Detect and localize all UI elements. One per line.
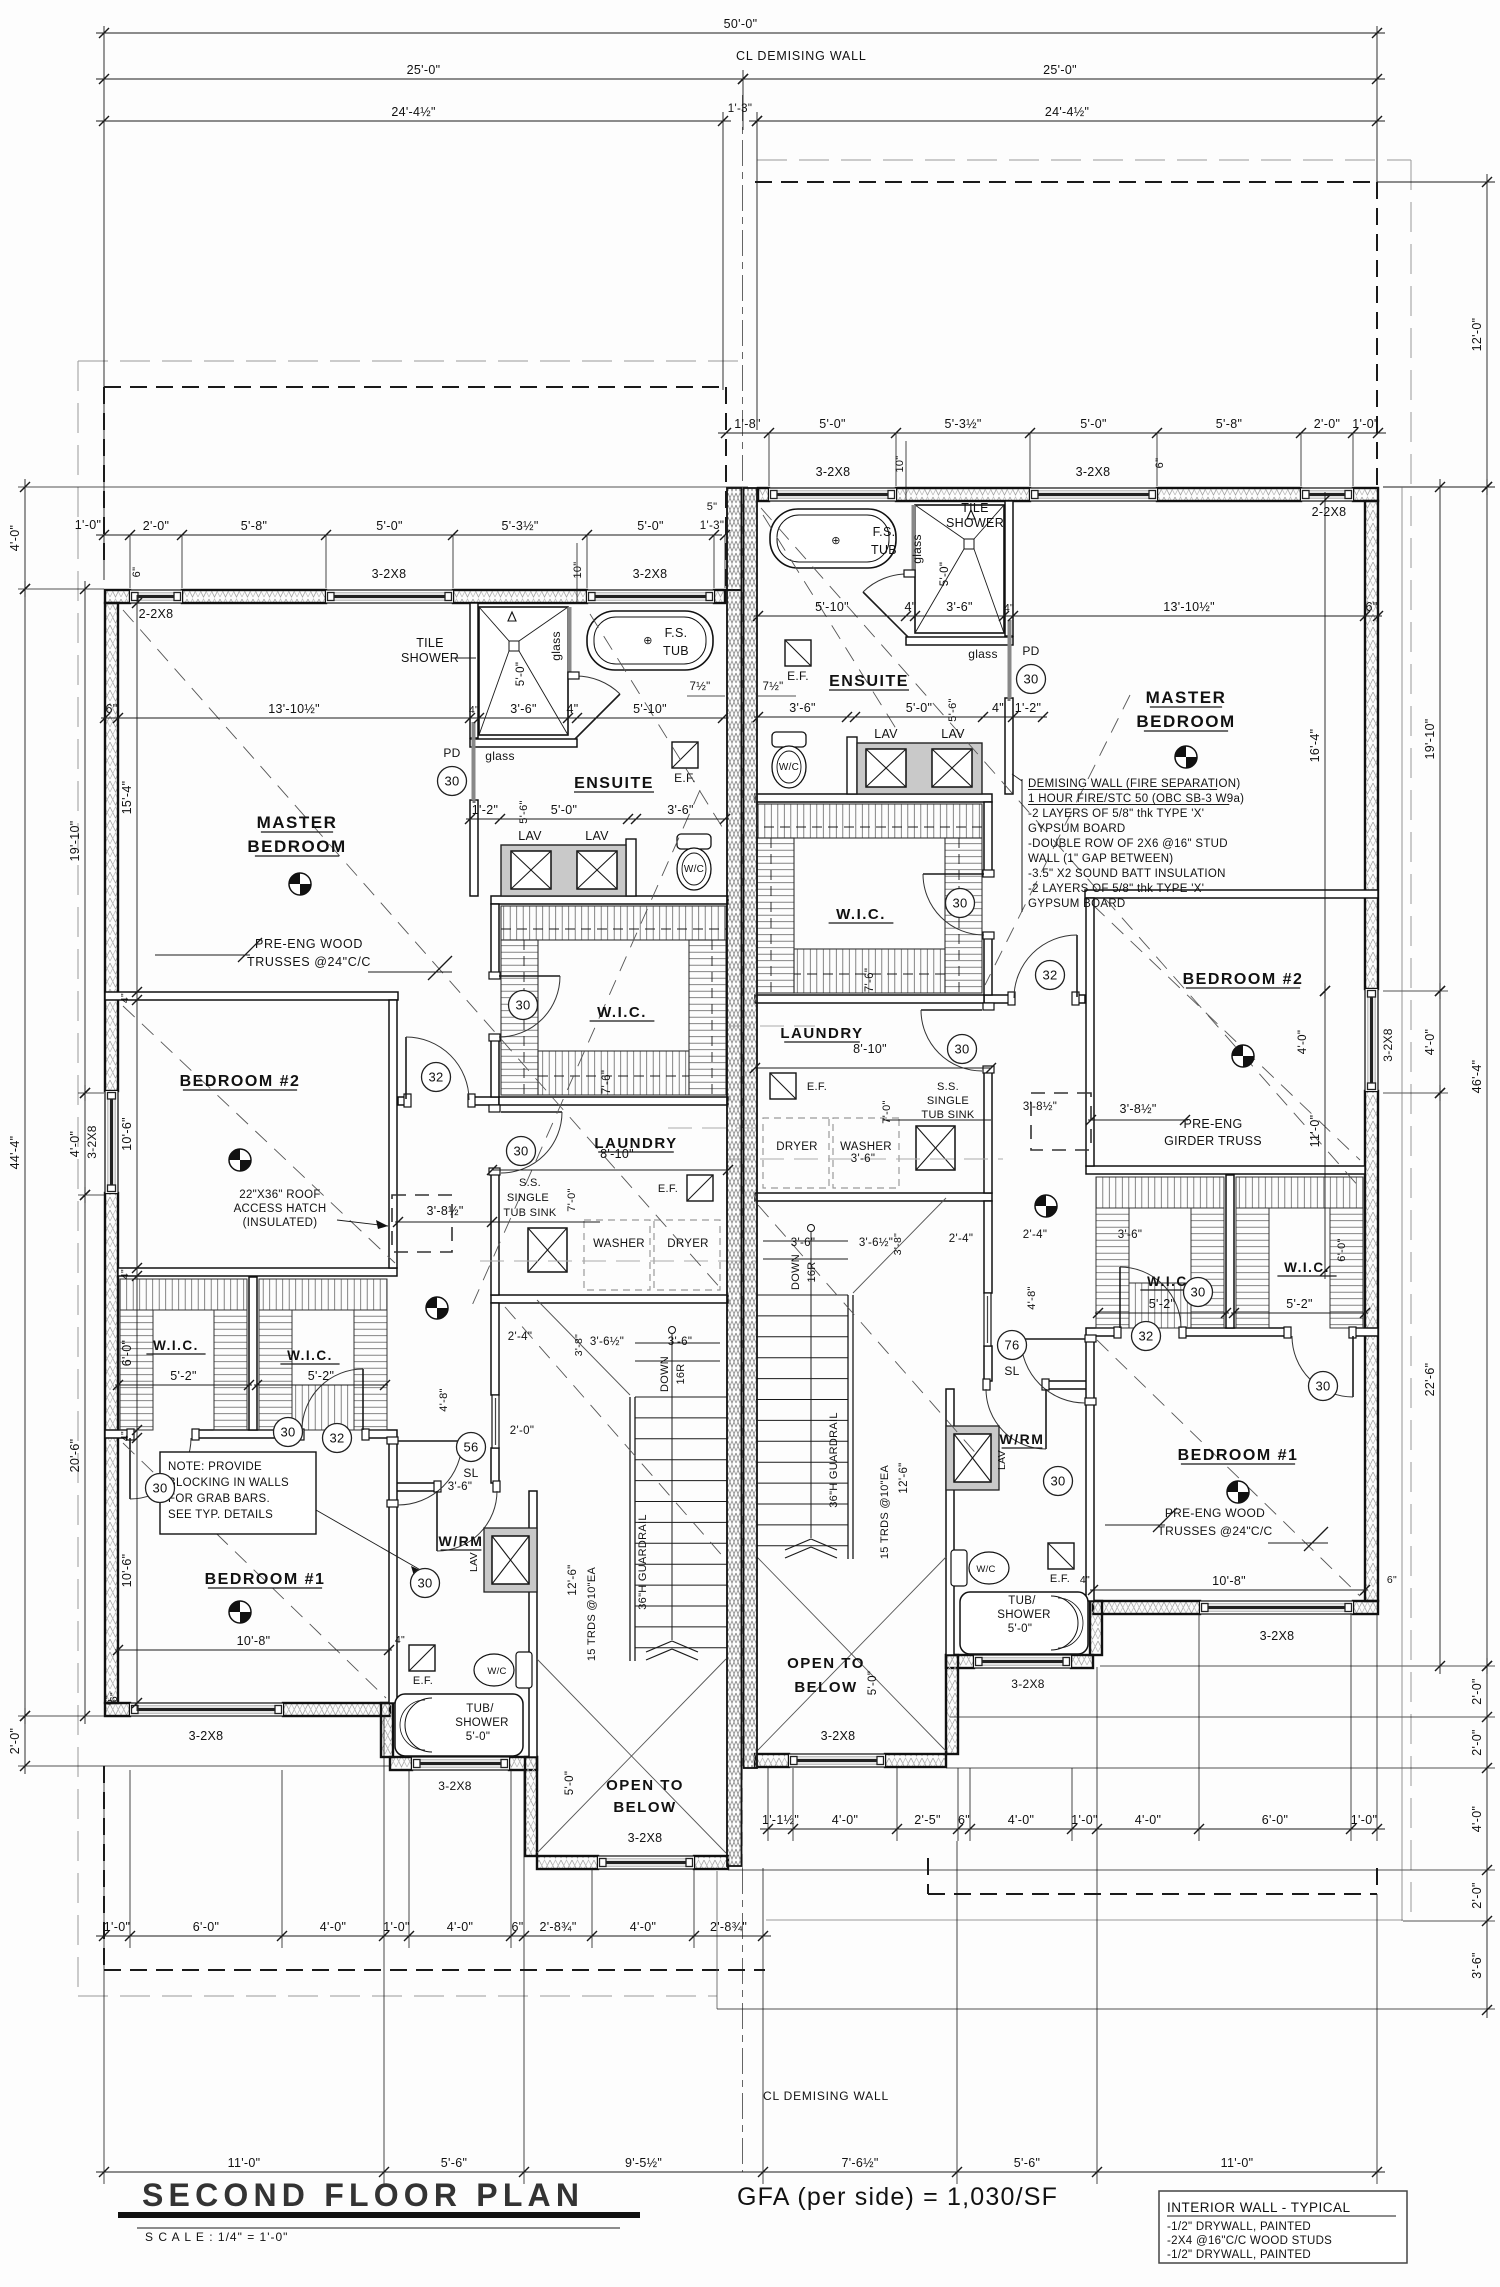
dim chain x=137 [136, 595, 138, 1711]
svg-text:6'-0": 6'-0" [120, 1340, 134, 1366]
svg-text:12'-6": 12'-6" [898, 1462, 910, 1493]
wall: bedroom1 south exterior [105, 1703, 130, 1716]
window stair bay 3-2X8 [598, 1856, 694, 1869]
wall: wic row south (door gaps) [105, 1430, 130, 1438]
svg-text:BEDROOM: BEDROOM [247, 837, 346, 856]
svg-text:4": 4" [119, 993, 131, 1003]
svg-text:7½": 7½" [763, 681, 784, 693]
svg-text:E.F.: E.F. [1050, 1573, 1070, 1585]
svg-text:5'-0": 5'-0" [515, 662, 527, 686]
svg-text:32: 32 [1042, 968, 1057, 983]
svg-text:1'-1½": 1'-1½" [762, 1813, 799, 1827]
dim chain y=1385 [254, 1384, 388, 1386]
svg-text:TUB SINK: TUB SINK [921, 1109, 974, 1121]
svg-text:10'-8": 10'-8" [237, 1634, 271, 1648]
svg-text:4'-0": 4'-0" [68, 1131, 82, 1157]
diagonal truss lines right unit [761, 508, 1360, 1188]
svg-text:W/C: W/C [976, 1564, 995, 1575]
svg-text:⊕: ⊕ [643, 635, 653, 647]
svg-text:TUB SINK: TUB SINK [503, 1207, 556, 1219]
fixture: dryer [654, 1220, 720, 1290]
door: wic master (30) [499, 975, 560, 977]
svg-text:4": 4" [119, 1269, 131, 1279]
svg-text:3'-6": 3'-6" [667, 803, 693, 817]
wall: laundry south [491, 1295, 728, 1303]
stair guardrail [629, 1397, 631, 1661]
svg-text:⊕: ⊕ [831, 535, 841, 547]
dim chain y=1936 [96, 1935, 771, 1937]
svg-text:7'-0": 7'-0" [566, 1188, 578, 1211]
dim chain y=1313 [1095, 1312, 1229, 1314]
wall: hall north (door32 gap) [398, 1097, 409, 1105]
dim chain x=1440 [1439, 479, 1441, 999]
fixture: wrm EF [409, 1645, 435, 1671]
svg-text:44'-4": 44'-4" [8, 1136, 22, 1170]
svg-text:6": 6" [103, 1695, 115, 1705]
door: bedroom1 (32) [398, 1440, 462, 1442]
window bottom 3-2X8 [130, 1703, 283, 1716]
svg-text:E.F.: E.F. [658, 1183, 678, 1195]
dim chain y=1068 [755, 1067, 991, 1069]
svg-text:MASTER: MASTER [1146, 688, 1227, 707]
door jambs [404, 1094, 411, 1107]
dim chain y=121 [96, 120, 731, 122]
window W top 3-2X8 b [587, 590, 714, 603]
wall: wrm north (door gap) [390, 1483, 437, 1491]
wall: bedroom2 east [389, 1000, 397, 1268]
svg-text:56: 56 [463, 1440, 478, 1455]
svg-text:11'-0": 11'-0" [228, 2156, 261, 2170]
wall: ensuite shower south [470, 739, 577, 747]
svg-text:3-2X8: 3-2X8 [1011, 1677, 1045, 1691]
fixture: vanity 2 sinks [501, 845, 626, 896]
fixture: F.S. tub ensuite [587, 611, 713, 670]
svg-text:SHOWER: SHOWER [401, 651, 459, 665]
svg-text:24'-4½": 24'-4½" [1045, 105, 1089, 119]
svg-text:7'-6½": 7'-6½" [841, 2156, 878, 2170]
svg-text:GIRDER TRUSS: GIRDER TRUSS [1164, 1134, 1262, 1148]
fixture: washer [584, 1220, 650, 1290]
svg-text:32: 32 [428, 1070, 443, 1085]
door: laundry (30) [501, 1111, 562, 1113]
svg-text:5'-2": 5'-2" [170, 1369, 196, 1383]
closet shelves wic B [259, 1279, 387, 1310]
svg-text:S C A L E : 1/4" = 1'-0": S C A L E : 1/4" = 1'-0" [145, 2230, 288, 2244]
svg-text:-2 LAYERS OF 5/8" thk TYPE 'X': -2 LAYERS OF 5/8" thk TYPE 'X' [1028, 883, 1204, 895]
svg-text:S.S.: S.S. [519, 1177, 541, 1189]
svg-text:12'-0": 12'-0" [1470, 318, 1484, 352]
svg-text:5'-0": 5'-0" [1080, 417, 1106, 431]
svg-text:2-2X8: 2-2X8 [139, 607, 174, 621]
svg-text:OPEN TO: OPEN TO [606, 1777, 684, 1794]
svg-text:6'-0": 6'-0" [1262, 1813, 1288, 1827]
svg-text:25'-0": 25'-0" [1043, 63, 1077, 77]
svg-text:4'-0": 4'-0" [8, 525, 22, 551]
svg-text:19'-10": 19'-10" [1423, 719, 1437, 760]
svg-text:PRE-ENG WOOD: PRE-ENG WOOD [255, 937, 363, 951]
svg-text:GYPSUM BOARD: GYPSUM BOARD [1028, 823, 1126, 835]
wall: wic west / corridor east segments [491, 904, 499, 975]
svg-text:16'-4": 16'-4" [1308, 729, 1322, 763]
svg-text:5'-3½": 5'-3½" [501, 519, 538, 533]
svg-text:-1/2" DRYWALL, PAINTED: -1/2" DRYWALL, PAINTED [1167, 2221, 1311, 2233]
svg-text:30: 30 [952, 896, 967, 911]
svg-text:16R: 16R [806, 1261, 818, 1282]
svg-text:W.I.C.: W.I.C. [836, 906, 886, 923]
svg-text:-2 LAYERS OF 5/8" thk TYPE 'X': -2 LAYERS OF 5/8" thk TYPE 'X' [1028, 808, 1204, 820]
svg-text:glass: glass [549, 631, 563, 661]
right unit geometry (mirrored) [755, 488, 1378, 1767]
svg-text:3'-6": 3'-6" [1118, 1229, 1142, 1241]
svg-text:LAV: LAV [585, 829, 609, 843]
closet shelves wic master [501, 906, 726, 940]
svg-text:PRE-ENG: PRE-ENG [1183, 1117, 1242, 1131]
svg-text:BEDROOM #1: BEDROOM #1 [205, 1571, 326, 1588]
svg-text:-DOUBLE ROW OF 2X6 @16" STUD: -DOUBLE ROW OF 2X6 @16" STUD [1028, 838, 1228, 850]
svg-text:5'-2": 5'-2" [1286, 1297, 1312, 1311]
dim chain x=1440 [1439, 1085, 1441, 1674]
window left wall 3-2X8 [105, 1091, 118, 1193]
dim chain y=433 [718, 432, 1386, 434]
svg-text:-3.5" X2 SOUND BATT INSULATION: -3.5" X2 SOUND BATT INSULATION [1028, 868, 1226, 880]
svg-text:CL DEMISING WALL: CL DEMISING WALL [763, 2089, 889, 2103]
dim chain y=717 [754, 716, 1047, 718]
svg-text:32: 32 [1138, 1329, 1153, 1344]
svg-text:9'-5½": 9'-5½" [625, 2156, 662, 2170]
svg-text:36"H GUARDRAIL: 36"H GUARDRAIL [637, 1514, 649, 1610]
svg-text:2'-0": 2'-0" [1314, 417, 1340, 431]
svg-text:2'-8¾": 2'-8¾" [710, 1920, 747, 1934]
svg-text:1'-0": 1'-0" [75, 518, 101, 532]
wall: unit left exterior [105, 603, 118, 1091]
svg-text:S.S.: S.S. [937, 1081, 959, 1093]
svg-text:30: 30 [954, 1042, 969, 1057]
svg-text:4": 4" [119, 1431, 131, 1441]
svg-text:TILE: TILE [961, 501, 989, 515]
svg-text:11'-0": 11'-0" [1308, 1115, 1322, 1148]
svg-text:TILE: TILE [416, 636, 444, 650]
dim chain y=79 [96, 78, 751, 80]
roof access hatch [392, 1195, 452, 1252]
svg-text:5'-3½": 5'-3½" [944, 417, 981, 431]
svg-text:ACCESS HATCH: ACCESS HATCH [234, 1203, 327, 1215]
svg-text:30: 30 [1315, 1379, 1330, 1394]
svg-text:MASTER: MASTER [257, 813, 338, 832]
fixture: E.F. laundry [687, 1175, 713, 1201]
svg-text:3-2X8: 3-2X8 [372, 567, 407, 581]
svg-text:5'-0": 5'-0" [939, 562, 951, 586]
svg-text:4'-0": 4'-0" [1008, 1813, 1034, 1827]
svg-text:5'-6": 5'-6" [947, 698, 959, 721]
dim chain x=85 [84, 1187, 86, 1724]
svg-text:3-2X8: 3-2X8 [1260, 1629, 1295, 1643]
svg-text:W.I.C.: W.I.C. [1284, 1260, 1330, 1275]
svg-text:E.F.: E.F. [787, 669, 809, 683]
svg-text:W/RM: W/RM [439, 1533, 484, 1549]
svg-text:50'-0": 50'-0" [724, 17, 758, 31]
dim chain y=535 [96, 534, 722, 536]
svg-text:13'-10½": 13'-10½" [1163, 600, 1215, 614]
svg-text:22'-6": 22'-6" [1423, 1363, 1437, 1397]
wall: stair bay west [525, 1757, 537, 1856]
svg-text:6": 6" [1366, 600, 1378, 614]
svg-text:LAV: LAV [941, 727, 965, 741]
dim chain x=1487 [1486, 174, 1488, 495]
svg-text:46'-4": 46'-4" [1470, 1060, 1484, 1094]
fixture: wrm vanity [484, 1528, 537, 1592]
svg-text:5'-0": 5'-0" [564, 1771, 576, 1795]
svg-text:1 HOUR FIRE/STC 50 (OBC SB-3 W: 1 HOUR FIRE/STC 50 (OBC SB-3 W9a) [1028, 793, 1244, 805]
svg-text:4'-0": 4'-0" [1470, 1806, 1484, 1832]
svg-text:TRUSSES @24"C/C: TRUSSES @24"C/C [1158, 1524, 1273, 1538]
dim chain y=2172 [96, 2171, 1385, 2173]
svg-text:BEDROOM: BEDROOM [1136, 712, 1235, 731]
svg-text:W/RM: W/RM [1000, 1431, 1045, 1447]
svg-text:SECOND FLOOR PLAN: SECOND FLOOR PLAN [142, 2177, 584, 2213]
svg-text:3'-6": 3'-6" [1470, 1952, 1484, 1978]
svg-text:15 TRDS @10"EA: 15 TRDS @10"EA [586, 1567, 598, 1662]
dim chain y=718 [101, 717, 727, 719]
svg-text:5'-0": 5'-0" [1008, 1623, 1032, 1635]
bottom extension lines [103, 1766, 105, 1948]
svg-text:32: 32 [329, 1431, 344, 1446]
dim chain x=1487 [1486, 1658, 1488, 2018]
wall: landing west + SL window [491, 1303, 499, 1395]
svg-text:LAV: LAV [996, 1450, 1008, 1470]
svg-text:8'-10": 8'-10" [853, 1042, 887, 1056]
svg-text:5'-10": 5'-10" [815, 600, 849, 614]
fixture: wrm wc [516, 1652, 532, 1688]
dim chain y=1829 [760, 1828, 1385, 1830]
dim chain y=1222 [395, 1221, 495, 1223]
dim chain y=121 [749, 120, 1385, 122]
svg-text:5'-6": 5'-6" [518, 800, 530, 823]
svg-text:SHOWER: SHOWER [946, 516, 1004, 530]
fixture: tub/shower [395, 1694, 523, 1756]
svg-text:ENSUITE: ENSUITE [574, 775, 654, 792]
wall: bath bay south [390, 1757, 412, 1770]
svg-text:5'-8": 5'-8" [241, 519, 267, 533]
svg-text:GFA (per side) = 1,030/SF: GFA (per side) = 1,030/SF [737, 2183, 1058, 2211]
wall: master south [105, 992, 398, 1000]
svg-text:8'-10": 8'-10" [600, 1147, 634, 1161]
svg-text:1'-0": 1'-0" [1351, 1813, 1377, 1827]
wall: bedroom2 south [118, 1268, 397, 1276]
svg-text:W.I.C.: W.I.C. [597, 1004, 647, 1021]
svg-text:10'-6": 10'-6" [120, 1554, 134, 1588]
svg-text:5'-0": 5'-0" [376, 519, 402, 533]
dim chain y=79 [735, 78, 1385, 80]
svg-text:12'-6": 12'-6" [567, 1564, 579, 1595]
svg-text:LAV: LAV [468, 1552, 480, 1572]
wall: ensuite south / wic north [491, 896, 728, 904]
svg-text:W.I.C.: W.I.C. [153, 1338, 199, 1353]
svg-text:BLOCKING IN WALLS: BLOCKING IN WALLS [168, 1477, 289, 1489]
svg-text:-1/2" DRYWALL, PAINTED: -1/2" DRYWALL, PAINTED [1167, 2249, 1311, 2261]
svg-text:PD: PD [443, 746, 460, 760]
svg-text:LAV: LAV [874, 727, 898, 741]
svg-text:3-2X8: 3-2X8 [85, 1125, 99, 1159]
svg-text:SL: SL [1004, 1364, 1019, 1378]
svg-text:F.S.: F.S. [665, 626, 688, 640]
svg-text:INTERIOR WALL - TYPICAL: INTERIOR WALL - TYPICAL [1167, 2200, 1351, 2215]
svg-text:15'-4": 15'-4" [120, 781, 134, 815]
svg-text:4": 4" [1004, 602, 1014, 614]
svg-text:10": 10" [894, 455, 906, 472]
svg-text:4": 4" [1080, 1574, 1090, 1586]
door: master (32) [405, 1037, 407, 1099]
svg-text:2'-0": 2'-0" [143, 519, 169, 533]
svg-text:6": 6" [106, 702, 118, 716]
svg-text:5'-6": 5'-6" [1014, 2156, 1040, 2170]
svg-text:6'-0": 6'-0" [193, 1920, 219, 1934]
svg-text:SEE TYP. DETAILS: SEE TYP. DETAILS [168, 1509, 273, 1521]
svg-text:1'-0": 1'-0" [1352, 417, 1378, 431]
wall: unit top exterior [105, 590, 130, 603]
svg-text:3'-6½": 3'-6½" [859, 1237, 893, 1249]
extension lines top [103, 26, 105, 580]
svg-text:WALL (1" GAP BETWEEN): WALL (1" GAP BETWEEN) [1028, 853, 1173, 865]
open below diagonals [537, 1659, 726, 1853]
svg-text:4'-0": 4'-0" [630, 1920, 656, 1934]
svg-text:glass: glass [968, 647, 998, 661]
svg-text:TUB/: TUB/ [1008, 1595, 1036, 1607]
svg-text:6": 6" [958, 1813, 970, 1827]
svg-text:TUB: TUB [663, 644, 689, 658]
svg-text:SINGLE: SINGLE [507, 1192, 549, 1204]
svg-text:3-2X8: 3-2X8 [438, 1779, 472, 1793]
door: wrm (30) [436, 1491, 438, 1551]
svg-text:3'-8½": 3'-8½" [1119, 1102, 1156, 1116]
svg-text:3'-6½": 3'-6½" [590, 1336, 624, 1348]
wall: bedroom1 east [389, 1438, 397, 1703]
svg-text:1'-3": 1'-3" [700, 520, 724, 532]
svg-text:SL: SL [463, 1466, 478, 1480]
dim chain x=25 [24, 581, 26, 1724]
svg-text:22"X36" ROOF: 22"X36" ROOF [239, 1189, 320, 1201]
svg-text:E.F.: E.F. [674, 771, 696, 785]
svg-text:W.I.C.: W.I.C. [287, 1348, 333, 1363]
svg-text:3'-8": 3'-8" [892, 1233, 904, 1255]
svg-text:3'-8½": 3'-8½" [426, 1204, 463, 1218]
svg-text:1'-8": 1'-8" [734, 417, 760, 431]
svg-text:1'-0": 1'-0" [104, 1920, 130, 1934]
svg-text:30: 30 [1190, 1285, 1205, 1300]
dim chain x=1440 [1439, 983, 1441, 1101]
svg-text:1'-3": 1'-3" [728, 103, 752, 115]
svg-text:5'-0": 5'-0" [551, 803, 577, 817]
svg-text:FOR GRAB BARS.: FOR GRAB BARS. [168, 1493, 270, 1505]
dim chain y=1120 [1088, 1119, 1188, 1121]
svg-text:5'-0": 5'-0" [637, 519, 663, 533]
dim chain y=1313 [1231, 1312, 1368, 1314]
svg-text:W/C: W/C [684, 864, 704, 875]
svg-text:3-2X8: 3-2X8 [816, 465, 851, 479]
dim chain x=85 [84, 581, 86, 1101]
svg-text:2'-4": 2'-4" [508, 1331, 532, 1343]
svg-text:W/C: W/C [779, 762, 799, 773]
svg-text:6": 6" [131, 567, 143, 578]
diagonal truss lines left unit [123, 610, 722, 1290]
svg-text:SINGLE: SINGLE [927, 1095, 969, 1107]
stair down arrow [669, 1327, 676, 1334]
svg-text:-2X4 @16"C/C WOOD STUDS: -2X4 @16"C/C WOOD STUDS [1167, 2235, 1332, 2247]
svg-text:3-2X8: 3-2X8 [628, 1831, 663, 1845]
svg-text:5'-8": 5'-8" [1216, 417, 1242, 431]
svg-text:3-2X8: 3-2X8 [1381, 1028, 1395, 1062]
svg-text:WASHER: WASHER [593, 1238, 645, 1250]
dim chain y=1170 [492, 1169, 728, 1171]
svg-text:3'-6": 3'-6" [448, 1481, 472, 1493]
svg-text:15 TRDS @10"EA: 15 TRDS @10"EA [879, 1465, 891, 1560]
svg-text:30: 30 [417, 1576, 432, 1591]
svg-text:BEDROOM #1: BEDROOM #1 [1178, 1447, 1299, 1464]
wall: master/ensuite divider + pocket door [470, 603, 478, 738]
svg-text:3'-6": 3'-6" [851, 1153, 875, 1165]
svg-text:4'-0": 4'-0" [447, 1920, 473, 1934]
stair treads [635, 1342, 720, 1344]
svg-text:4": 4" [905, 600, 917, 614]
svg-text:glass: glass [910, 534, 924, 564]
svg-text:5'-0": 5'-0" [466, 1731, 490, 1743]
svg-text:DRYER: DRYER [667, 1238, 709, 1250]
shower glass [568, 607, 572, 676]
dim chain y=819 [466, 818, 729, 820]
svg-text:20'-6": 20'-6" [68, 1439, 82, 1473]
svg-text:30: 30 [1023, 672, 1038, 687]
dim chain y=616 [754, 615, 1382, 617]
wall: laundry west below door [491, 1170, 499, 1295]
dim chain x=1325 [1324, 492, 1326, 999]
window W top 3-2X8 a [326, 590, 453, 603]
svg-text:E.F.: E.F. [807, 1081, 827, 1093]
roof overhang left unit [104, 386, 726, 388]
svg-text:4'-0": 4'-0" [1135, 1813, 1161, 1827]
svg-text:6": 6" [512, 1920, 524, 1934]
svg-text:7½": 7½" [690, 681, 711, 693]
svg-text:3-2X8: 3-2X8 [821, 1729, 856, 1743]
stair break chevron [646, 1641, 672, 1652]
dim chain x=25 [24, 479, 26, 597]
svg-text:3-2X8: 3-2X8 [189, 1729, 224, 1743]
svg-text:5'-0": 5'-0" [867, 1671, 879, 1695]
svg-text:6'-0": 6'-0" [1336, 1238, 1348, 1261]
dim chain y=1590 [1090, 1589, 1368, 1591]
svg-text:4'-0": 4'-0" [320, 1920, 346, 1934]
svg-text:F.S.: F.S. [873, 525, 896, 539]
svg-text:7'-6": 7'-6" [601, 1070, 613, 1094]
svg-text:E.F.: E.F. [413, 1675, 433, 1687]
svg-text:76: 76 [1004, 1338, 1019, 1353]
closet shelves wic A [120, 1279, 247, 1310]
svg-text:2'-5": 2'-5" [914, 1813, 940, 1827]
demising centerline [742, 95, 744, 490]
svg-text:DEMISING WALL (FIRE SEPARATION: DEMISING WALL (FIRE SEPARATION) [1028, 778, 1241, 790]
dim chain x=1325 [1324, 983, 1326, 1279]
svg-text:5'-2": 5'-2" [1149, 1297, 1175, 1311]
wall: step south [381, 1703, 393, 1757]
svg-text:2'-4": 2'-4" [1023, 1229, 1047, 1241]
fixture: tile shower [479, 607, 568, 735]
svg-text:19'-10": 19'-10" [68, 821, 82, 862]
svg-text:(INSULATED): (INSULATED) [243, 1217, 318, 1229]
svg-text:LAUNDRY: LAUNDRY [780, 1025, 863, 1042]
door: wicA (30) [129, 1438, 131, 1499]
svg-text:4'-8": 4'-8" [1026, 1286, 1038, 1309]
svg-text:3-2X8: 3-2X8 [1076, 465, 1111, 479]
wall: stair bay south [537, 1856, 598, 1869]
svg-text:TUB: TUB [871, 543, 897, 557]
